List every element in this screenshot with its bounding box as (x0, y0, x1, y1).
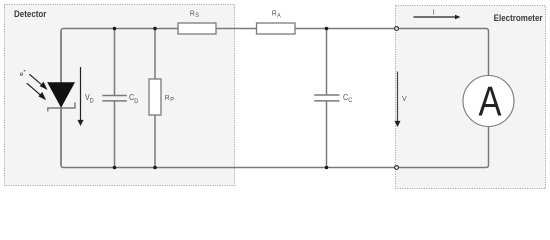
svg-text:Electrometer: Electrometer (494, 13, 544, 24)
svg-text:R: R (272, 9, 277, 17)
svg-text:P: P (170, 97, 174, 103)
svg-text:D: D (90, 98, 95, 104)
svg-text:R: R (190, 9, 195, 17)
svg-text:Detector: Detector (14, 9, 47, 20)
svg-text:S: S (195, 13, 199, 19)
svg-text:A: A (479, 78, 502, 125)
svg-text:V: V (402, 96, 407, 103)
svg-text:C: C (348, 98, 353, 104)
svg-text:A: A (277, 13, 281, 19)
svg-text:e: e (20, 71, 24, 78)
svg-text:D: D (134, 99, 139, 105)
svg-text:R: R (165, 94, 170, 102)
svg-text:I: I (433, 9, 435, 16)
